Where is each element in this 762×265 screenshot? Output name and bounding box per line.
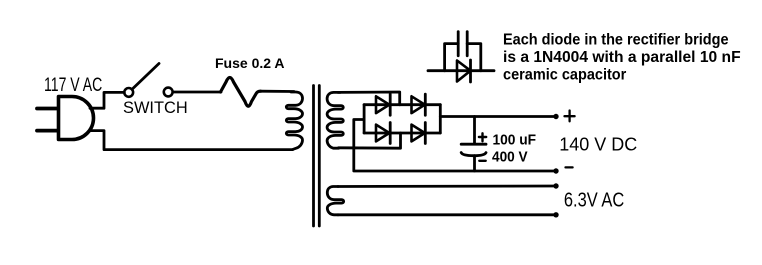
wire secondary bottom to bridge AC2 (339, 133, 401, 148)
capacitor C2 plate left (457, 32, 460, 56)
wire plug top lead to switch (90, 92, 124, 108)
plug prong top (37, 107, 58, 111)
switch S1 blade (133, 64, 159, 89)
node terminal 6.3V bottom (553, 212, 558, 217)
svg-text:SWITCH: SWITCH (123, 98, 188, 117)
transformer T1 6.3V winding (327, 187, 343, 215)
wire bridge left node (363, 105, 366, 133)
node terminal 6.3V top (553, 183, 558, 188)
switch S1 throw contact (164, 88, 173, 97)
capacitor C1 plus mark (479, 133, 486, 141)
transformer T1 core (312, 86, 315, 227)
svg-text:is a 1N4004 with a parallel 10: is a 1N4004 with a parallel 10 nF (503, 49, 741, 66)
capacitor C2 (note) branch (445, 44, 481, 71)
fuse F1 (221, 78, 261, 107)
capacitor C1 lead bottom (473, 156, 476, 171)
wire bridge top row (364, 103, 440, 106)
diode D2 (412, 96, 425, 113)
svg-text:100 uF: 100 uF (493, 131, 537, 148)
capacitor C2 plate right (466, 32, 469, 56)
plug prong bottom (37, 129, 58, 133)
svg-text:Fuse 0.2 A: Fuse 0.2 A (215, 55, 285, 71)
transformer T1 primary winding (286, 92, 302, 150)
capacitor C1 lead top (473, 117, 476, 145)
wire DC plus from bridge right node (440, 115, 553, 118)
plug P1 (59, 97, 94, 140)
diode D5 (note) (457, 61, 471, 82)
svg-text:117 V AC: 117 V AC (44, 75, 102, 96)
svg-text:ceramic capacitor: ceramic capacitor (503, 66, 626, 83)
node terminal minus (553, 168, 558, 173)
capacitor C1 top plate (461, 143, 486, 146)
wire plug bottom lead (90, 131, 293, 150)
wire switch to fuse (173, 91, 221, 94)
wire bridge right node (439, 105, 442, 133)
node terminal plus (553, 114, 558, 119)
wire 6.3V bottom lead (338, 213, 554, 216)
wire DC minus from bridge left node (354, 120, 554, 172)
wire secondary top to bridge AC1 (338, 92, 400, 105)
label minus sign (566, 166, 573, 168)
wire fuse to transformer primary (261, 90, 295, 93)
diode D1 (376, 96, 389, 113)
svg-text:140 V DC: 140 V DC (559, 133, 637, 154)
transformer T1 HV secondary winding (327, 92, 343, 148)
svg-text:Each diode in the rectifier br: Each diode in the rectifier bridge (503, 32, 729, 49)
note wire (428, 69, 494, 72)
svg-text:400 V: 400 V (492, 149, 528, 166)
diode D4 (412, 125, 425, 142)
svg-text:6.3V AC: 6.3V AC (564, 189, 624, 211)
capacitor C1 bottom plate (461, 153, 486, 156)
capacitor C1 minus mark (479, 160, 485, 162)
wire bridge bottom row (364, 132, 440, 135)
switch S1 pole contact (124, 88, 133, 97)
wire 6.3V top lead (338, 185, 554, 188)
label plus sign (565, 111, 575, 122)
diode D3 (376, 125, 389, 142)
